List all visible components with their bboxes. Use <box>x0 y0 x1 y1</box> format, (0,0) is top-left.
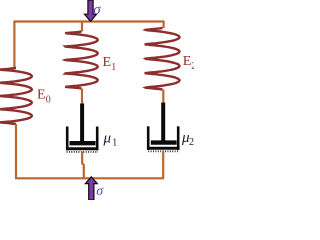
wire bottom bar <box>15 177 164 179</box>
svg-text:2: 2 <box>189 137 194 148</box>
spring E1 <box>65 32 97 89</box>
svg-text:1: 1 <box>111 62 116 73</box>
dashpot U2 piston rod <box>161 103 165 143</box>
wire top bar <box>14 20 165 22</box>
wire left vertical upper <box>13 21 15 69</box>
dashpot U1 cup bottom <box>66 147 98 150</box>
dashpot U2 hatch fringe <box>148 150 179 152</box>
wire below U2 <box>162 151 164 179</box>
svg-text:σ: σ <box>96 184 104 199</box>
svg-text:E: E <box>183 54 192 69</box>
svg-text:E: E <box>37 88 46 103</box>
dashpot U1 piston plate <box>70 141 96 145</box>
dashpot U2 piston plate <box>151 140 177 144</box>
stress arrow bottom <box>85 177 97 200</box>
spring E0 <box>0 68 32 124</box>
wire middle below spring <box>81 89 83 105</box>
dashpot U1 piston rod <box>80 104 84 144</box>
svg-text:σ: σ <box>93 2 101 18</box>
spring E2 <box>146 28 180 90</box>
wire middle stub top <box>81 21 83 32</box>
dashpot U2 cup right wall <box>177 126 180 150</box>
svg-text:μ: μ <box>103 131 112 147</box>
wire right stub top <box>163 21 165 29</box>
svg-text:1: 1 <box>112 138 117 149</box>
dashpot U2 cup left wall <box>147 126 150 150</box>
svg-text:E: E <box>103 55 112 70</box>
wire right below spring <box>162 90 164 104</box>
wire below U1 <box>82 152 84 179</box>
dashpot U1 hatch fringe <box>67 151 99 153</box>
svg-text:2: 2 <box>191 61 194 72</box>
dashpot U1 cup right wall <box>96 127 99 151</box>
dashpot U1 cup left wall <box>66 127 69 151</box>
wire left vertical lower <box>15 124 17 178</box>
dashpot U2 cup bottom <box>147 147 180 150</box>
stress arrow top <box>85 0 97 21</box>
svg-text:0: 0 <box>46 95 51 106</box>
